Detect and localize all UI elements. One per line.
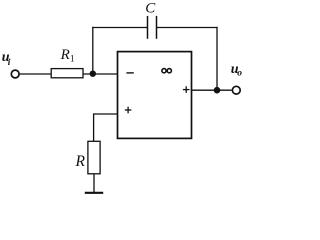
wire capacitor to output node	[157, 27, 218, 29]
capacitor C right plate	[156, 16, 158, 39]
wire junction up to feedback rail	[92, 27, 94, 75]
wire R to ground	[93, 174, 95, 193]
svg-text:o: o	[237, 69, 242, 79]
output terminal u_o	[232, 86, 240, 94]
wire input terminal to R1	[19, 73, 51, 75]
wire noninverting input to R	[94, 114, 118, 141]
ground	[85, 192, 103, 194]
wire feedback rail to capacitor	[92, 27, 147, 29]
wire feedback rail down to output node	[216, 27, 218, 90]
svg-text:R: R	[75, 153, 86, 170]
wire op-amp output to terminal	[192, 89, 232, 91]
capacitor C left plate	[147, 16, 149, 39]
svg-text:R: R	[60, 47, 70, 63]
op-amp U1 body	[118, 52, 192, 139]
svg-text:1: 1	[70, 55, 75, 65]
resistor R1	[51, 69, 83, 78]
op-amp infinity gain label	[162, 69, 172, 73]
input terminal u_i	[11, 70, 19, 78]
node junction at inverting input	[90, 71, 96, 77]
svg-text:C: C	[145, 1, 156, 17]
wire R1 to op-amp inverting input	[83, 73, 118, 75]
op-amp inverting input label -	[126, 72, 133, 74]
resistor R	[88, 141, 100, 174]
op-amp output label +	[183, 86, 190, 93]
op-amp noninverting input label +	[125, 107, 132, 114]
svg-text:i: i	[8, 58, 11, 68]
node output junction	[214, 87, 221, 94]
